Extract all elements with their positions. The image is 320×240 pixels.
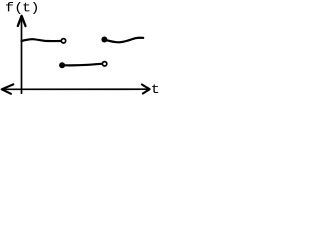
segment 1 curve [22, 39, 61, 41]
segment 2 line [65, 64, 102, 66]
segment 1 open circle [61, 39, 65, 43]
label f(t) [6, 2, 37, 14]
segment 3 curve [107, 38, 143, 43]
background [0, 0, 169, 100]
segment 2 open circle [102, 62, 106, 66]
label t [152, 84, 158, 93]
segment 2 filled circle [59, 62, 65, 68]
segment 3 filled circle [101, 37, 107, 43]
vertical axis (f axis) [18, 16, 26, 94]
horizontal axis (t axis) [2, 84, 150, 93]
